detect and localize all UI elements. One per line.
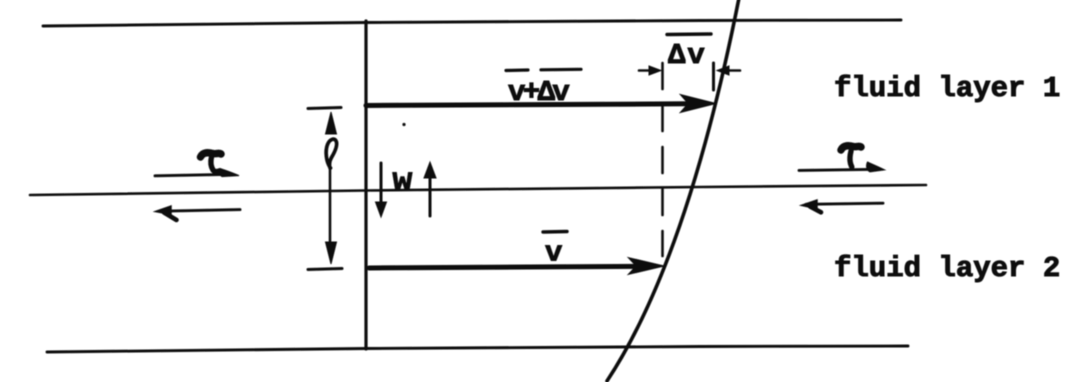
dimension l up arrowhead (326, 112, 337, 134)
arrow v+dv shaft (366, 104, 690, 106)
script letter l (326, 139, 337, 168)
scan speck (402, 123, 405, 126)
overbar of dv (in v+dv) (541, 68, 581, 72)
left tau right arrow (155, 174, 232, 176)
right tau left arrow (806, 203, 883, 204)
left tau symbol (201, 153, 222, 157)
vertical reference line (364, 21, 367, 349)
right tau right arrow (799, 169, 868, 170)
overbar of v (in v+dv) (506, 68, 528, 72)
arrow v head (629, 258, 663, 274)
dimension l down arrowhead (326, 242, 337, 264)
velocity profile curve (607, 0, 739, 381)
dimension l bottom tick (308, 269, 342, 270)
arrow v+dv head (681, 95, 715, 112)
dv dimension right arrow (726, 69, 740, 72)
dv dimension left arrow (639, 69, 652, 72)
w up arrow (429, 176, 432, 216)
dimension l top tick (308, 108, 341, 109)
svg-text:w: w (393, 163, 413, 200)
dimension l line (329, 168, 332, 246)
svg-text:v: v (545, 237, 562, 270)
dashed vertical line (661, 63, 664, 256)
dv dimension right tick (712, 63, 715, 90)
overbar of dv label (667, 32, 711, 36)
right tau symbol (841, 146, 861, 150)
bottom boundary line (47, 346, 908, 352)
svg-text:fluid layer 1: fluid layer 1 (834, 72, 1060, 105)
w down arrow (380, 163, 383, 205)
svg-text:Δv: Δv (668, 39, 707, 72)
left tau left arrow (162, 210, 240, 212)
arrow v shaft (369, 266, 640, 268)
middle interface line (30, 185, 926, 195)
overbar of v label (543, 230, 567, 234)
svg-text:fluid layer 2: fluid layer 2 (834, 252, 1060, 285)
top boundary line (43, 20, 901, 26)
svg-text:v+Δv: v+Δv (508, 76, 569, 109)
